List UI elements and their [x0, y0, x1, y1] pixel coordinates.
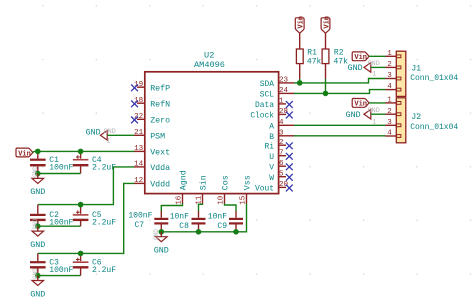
svg-text:24: 24	[279, 87, 289, 95]
J1 pin 4	[385, 83, 396, 91]
svg-text:15: 15	[239, 195, 247, 205]
ground at J1 pin2	[348, 60, 380, 78]
wire Vin to J2 pin1	[369, 102, 385, 104]
svg-text:GND: GND	[30, 289, 45, 299]
svg-text:GND: GND	[32, 218, 39, 229]
svg-text:A: A	[269, 122, 274, 131]
power flag Vin at J1 pin1	[352, 52, 369, 61]
ground below C7	[153, 229, 169, 256]
junction C6 top	[78, 251, 84, 257]
pin 28 Clock	[250, 108, 288, 121]
svg-text:2.2uF: 2.2uF	[92, 219, 116, 228]
svg-text:RefP: RefP	[150, 83, 170, 93]
wire C1-C4 bottom rail	[38, 173, 81, 175]
junction C8 bottom	[196, 229, 202, 235]
power flag Vin (left)	[16, 148, 33, 157]
svg-text:1: 1	[107, 137, 111, 144]
no-connect X on pin 22	[131, 117, 138, 124]
svg-text:Vss: Vss	[244, 175, 253, 190]
svg-text:100nF: 100nF	[128, 211, 152, 220]
wire A to J2 pin3	[294, 124, 386, 126]
svg-text:23: 23	[279, 77, 289, 85]
svg-text:10: 10	[217, 195, 225, 205]
svg-text:C9: C9	[217, 222, 227, 231]
pin 5 W	[269, 170, 286, 183]
wire GND to J1 pin2	[371, 66, 386, 68]
svg-text:2: 2	[387, 61, 392, 69]
pin 23 SDA	[260, 77, 295, 90]
svg-text:12: 12	[134, 177, 144, 185]
wire Vddd net	[38, 183, 134, 253]
svg-text:Sin: Sin	[199, 175, 209, 190]
svg-text:1: 1	[372, 71, 376, 79]
svg-text:Vext: Vext	[150, 149, 170, 158]
J1 pin 1	[385, 50, 396, 58]
J1 pin 2	[385, 61, 396, 69]
junction SCL-R2	[323, 91, 329, 97]
pin 4 A	[269, 119, 294, 131]
pin 19 RefP	[134, 81, 170, 94]
wire C3-C6 bottom rail	[38, 275, 81, 277]
ground at PSM pin	[86, 128, 116, 144]
wire Cos to C9	[225, 204, 237, 212]
svg-text:R1: R1	[307, 48, 317, 57]
svg-text:Ri: Ri	[265, 142, 275, 151]
ground below C2	[30, 218, 45, 250]
connector J2 Conn_01x04 body	[396, 98, 458, 143]
J2 pin 1	[385, 97, 396, 105]
capacitor C8 10nF	[170, 212, 206, 231]
svg-text:16: 16	[175, 195, 183, 205]
no-connect X on pin 28	[286, 112, 293, 119]
capacitor C1 100nF	[30, 151, 74, 173]
capacitor C5 2.2uF	[73, 205, 116, 228]
wire R2 to SCL	[325, 64, 327, 79]
svg-text:21: 21	[134, 129, 144, 137]
no-connect X on pin 6	[286, 163, 293, 170]
wire Vin to R1	[299, 33, 301, 49]
svg-text:2.2uF: 2.2uF	[92, 163, 116, 172]
svg-text:Zero: Zero	[150, 116, 170, 125]
svg-text:GND: GND	[86, 129, 101, 138]
J2 pin 4	[385, 130, 396, 138]
svg-text:100nF: 100nF	[49, 163, 73, 172]
junction C2 bottom	[35, 223, 41, 229]
power flag Vin above R2	[321, 18, 330, 33]
svg-text:Vin: Vin	[298, 16, 306, 29]
svg-text:14: 14	[134, 161, 144, 169]
svg-text:10nF: 10nF	[170, 212, 189, 221]
svg-text:1: 1	[387, 97, 392, 105]
svg-text:V: V	[269, 163, 274, 172]
junction C1 top	[35, 149, 41, 155]
svg-text:GND: GND	[346, 111, 361, 120]
pin 12 Vddd	[134, 177, 170, 190]
svg-text:GND: GND	[153, 229, 160, 240]
svg-text:AM4096: AM4096	[194, 60, 225, 70]
wire Sin to C8	[199, 204, 203, 212]
junction C1 bottom	[35, 171, 41, 177]
wire GND to J2 pin2	[371, 113, 386, 115]
pin 1 Data	[255, 98, 286, 111]
svg-text:Data: Data	[255, 101, 274, 110]
pin 16 Agnd	[175, 170, 188, 205]
junction C5 top	[78, 202, 84, 208]
svg-text:SDA: SDA	[260, 80, 274, 89]
svg-text:GND: GND	[154, 246, 169, 256]
svg-text:GND: GND	[348, 64, 363, 73]
svg-text:3: 3	[387, 72, 392, 80]
svg-text:Vin: Vin	[18, 150, 31, 158]
pin 13 Vext	[134, 145, 170, 158]
svg-text:B: B	[269, 133, 274, 142]
svg-text:Vddd: Vddd	[150, 180, 170, 190]
svg-text:10nF: 10nF	[208, 212, 227, 221]
wire SDA to J1 pin3	[294, 79, 386, 83]
svg-text:Vdda: Vdda	[150, 163, 170, 173]
J2 pin 2	[385, 108, 396, 116]
svg-text:Clock: Clock	[250, 112, 274, 121]
svg-text:2.2uF: 2.2uF	[92, 266, 116, 275]
pin 21 PSM	[134, 129, 165, 142]
svg-text:11: 11	[195, 195, 203, 205]
resistor R2 47k	[322, 48, 348, 66]
pin 3 B	[269, 129, 294, 142]
wire Vin to R2	[325, 33, 327, 49]
ground below C1	[30, 166, 45, 197]
svg-text:SCL: SCL	[260, 91, 274, 100]
pin 7 U	[269, 149, 286, 162]
wire Vin to Vext net	[33, 151, 34, 152]
capacitor C2 100nF	[30, 205, 74, 228]
resistor R1 47k	[296, 48, 321, 66]
junction C3 bottom	[35, 273, 41, 279]
J2 pin 3	[385, 119, 396, 127]
connector J1 Conn_01x04 body	[396, 51, 458, 96]
svg-text:5: 5	[279, 170, 284, 178]
power flag Vin above R1	[295, 18, 304, 33]
pin 6 V	[269, 160, 286, 173]
svg-text:1: 1	[387, 50, 392, 58]
svg-text:Vin: Vin	[354, 101, 367, 109]
junction C4 top	[78, 149, 84, 155]
pin 15 Vss	[239, 175, 252, 205]
wire B to J2 pin4	[294, 135, 386, 137]
no-connect X on pin 18	[131, 100, 138, 107]
svg-text:U: U	[269, 153, 274, 162]
wire Vin to J1 pin1	[369, 55, 385, 57]
svg-text:J2: J2	[411, 113, 421, 122]
svg-text:100nF: 100nF	[49, 266, 73, 275]
ground at J2 pin2	[346, 107, 380, 126]
svg-text:3: 3	[279, 129, 284, 137]
power flag Vin at J2 pin1	[352, 98, 369, 107]
svg-text:4: 4	[387, 130, 392, 138]
svg-text:4: 4	[279, 119, 284, 127]
ground below C3	[30, 268, 45, 300]
pin 10 Cos	[217, 175, 230, 205]
svg-text:47k: 47k	[334, 58, 349, 67]
svg-text:GND: GND	[32, 166, 39, 177]
junction C7 bottom	[159, 229, 165, 235]
no-connect X on pin 1	[286, 101, 293, 108]
capacitor C9 10nF	[208, 212, 243, 231]
wire C2-C5 bottom rail	[38, 225, 81, 227]
wire R1 to SDA	[299, 64, 301, 79]
svg-text:Conn_01x04: Conn_01x04	[410, 123, 458, 132]
svg-text:J1: J1	[411, 64, 421, 73]
pin 24 SCL	[260, 87, 295, 100]
svg-text:GND: GND	[32, 268, 39, 279]
svg-text:PSM: PSM	[150, 132, 165, 141]
svg-text:4: 4	[387, 83, 392, 91]
IC U2 AM4096 body	[145, 50, 279, 193]
svg-text:3: 3	[387, 119, 392, 127]
svg-text:RefN: RefN	[150, 99, 170, 109]
pin 22 Zero	[134, 113, 170, 126]
svg-text:GND: GND	[30, 187, 45, 197]
capacitor C4 2.2uF	[73, 151, 116, 173]
wire SCL to J1 pin4	[294, 90, 386, 94]
wire Vdda net	[38, 167, 134, 205]
no-connect X on pin 19	[131, 84, 138, 91]
no-connect X on pin 2	[286, 142, 293, 149]
wire Agnd to C7	[161, 204, 182, 212]
svg-text:Conn_01x04: Conn_01x04	[410, 74, 458, 83]
junction SDA-R1	[297, 80, 303, 86]
svg-text:2: 2	[387, 108, 392, 116]
no-connect X on pin 7	[286, 153, 293, 160]
capacitor C3 100nF	[30, 253, 74, 275]
svg-text:U2: U2	[204, 50, 214, 60]
svg-text:Cos: Cos	[222, 175, 231, 190]
no-connect X on pin 5	[286, 174, 293, 181]
J1 pin 3	[385, 72, 396, 80]
svg-text:6: 6	[279, 160, 284, 168]
pin 18 RefN	[134, 97, 170, 110]
svg-text:47k: 47k	[307, 58, 322, 67]
junction C9 bottom	[233, 229, 239, 235]
wire PSM to ground	[107, 134, 134, 136]
svg-text:1: 1	[372, 118, 376, 126]
svg-text:13: 13	[134, 145, 144, 153]
svg-text:Agnd: Agnd	[179, 170, 189, 190]
svg-text:7: 7	[279, 149, 284, 157]
svg-text:2: 2	[279, 139, 284, 147]
pin 14 Vdda	[134, 161, 170, 174]
svg-text:W: W	[269, 174, 274, 183]
svg-text:Vout: Vout	[255, 185, 274, 194]
wire Vss down to ground rail	[161, 204, 246, 232]
pin 11 Sin	[195, 175, 208, 205]
svg-text:GND: GND	[30, 240, 45, 250]
svg-text:Vin: Vin	[354, 54, 367, 62]
svg-text:C8: C8	[179, 222, 189, 231]
capacitor C6 2.2uF	[73, 253, 116, 275]
svg-text:C7: C7	[134, 221, 144, 230]
capacitor C7 100nF	[128, 211, 168, 232]
no-connect X on pin 20	[286, 185, 293, 192]
svg-text:R2: R2	[334, 48, 344, 57]
pin 2 Ri	[265, 139, 286, 152]
svg-text:1: 1	[279, 98, 284, 106]
pin 20 Vout	[255, 181, 289, 194]
svg-text:Vin: Vin	[323, 16, 331, 29]
